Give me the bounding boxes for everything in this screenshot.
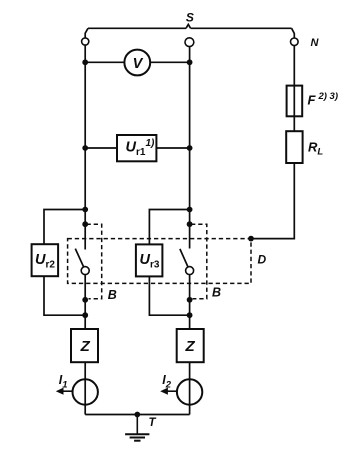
node left-Ur2 bottom (82, 312, 88, 318)
wire N vertical through fuse (293, 46, 295, 132)
svg-text:D: D (258, 253, 267, 267)
node left-Ur2 top (82, 207, 88, 213)
svg-text:Z: Z (80, 338, 91, 355)
node right-Ur1 (187, 145, 193, 151)
wire bottom bus (85, 414, 189, 416)
wire load branch from R_L to node D (251, 163, 294, 239)
switch blade (right contact B) (180, 249, 188, 267)
svg-text:V: V (133, 56, 144, 72)
node right-Ur3 top (187, 207, 193, 213)
svg-text:Z: Z (185, 338, 196, 355)
box Z (left) (71, 329, 98, 362)
switch blade (left contact B) (75, 249, 83, 267)
svg-text:RL: RL (308, 140, 323, 158)
dashed box B (right switch enclosure) (191, 224, 207, 299)
arrow I1 (59, 390, 73, 392)
node left-voltmeter (82, 59, 88, 65)
box Ur1 (117, 135, 156, 161)
wire right main stub from terminal S (189, 46, 191, 248)
wire Ur2 branch top (44, 210, 85, 245)
svg-text:B: B (108, 288, 117, 302)
node right switch top link (187, 221, 193, 227)
node right-voltmeter (187, 59, 193, 65)
wire Ur1 row right (156, 147, 189, 149)
node ground junction (134, 412, 140, 418)
wire right main vertical (lower) (189, 275, 191, 415)
node right switch bottom link (187, 297, 193, 303)
ground T (136, 415, 138, 434)
wire Ur1 row left (85, 147, 117, 149)
wire voltmeter row right (150, 61, 189, 63)
svg-text:N: N (311, 37, 320, 49)
svg-text:F2) 3): F2) 3) (308, 91, 339, 108)
wire left main vertical (lower, switch to bottom corner) (84, 275, 86, 415)
current source I2 (177, 379, 202, 404)
voltmeter V (124, 50, 150, 76)
arrow I2 (163, 390, 177, 392)
wire Ur3 branch bottom (149, 276, 189, 315)
node left switch bottom link (82, 297, 88, 303)
box Z (right) (177, 329, 204, 362)
node left switch top link (82, 221, 88, 227)
box Ur2 (32, 244, 58, 276)
svg-text:T: T (149, 417, 157, 429)
wire left main vertical (upper, to switch break) (84, 45, 86, 249)
wire top bus S left section (88, 27, 186, 29)
svg-text:S: S (186, 10, 194, 24)
wire top bus S right section (191, 27, 292, 29)
wire Ur2 branch bottom (44, 276, 85, 315)
box Ur3 (136, 244, 163, 276)
svg-text:I1: I1 (59, 373, 68, 391)
dashed box B (left switch enclosure) (87, 224, 102, 299)
terminal N (291, 38, 299, 46)
fuse F (287, 86, 303, 117)
switch contact circle (right) (186, 267, 194, 275)
wire top-left corner chamfer (85, 28, 88, 38)
terminal S (middle) (185, 38, 194, 47)
dashed box D (interlock enclosure) (68, 239, 251, 284)
wire top-right corner chamfer (292, 28, 295, 38)
box R_L (286, 131, 302, 163)
node left-Ur1 (82, 145, 88, 151)
node right-Ur3 bottom (187, 312, 193, 318)
wire Ur3 branch top (149, 210, 189, 245)
terminal (left phase) (82, 38, 89, 45)
svg-text:I2: I2 (162, 373, 171, 391)
switch S contact notch (186, 24, 191, 28)
node D junction (248, 236, 254, 242)
svg-text:B: B (212, 286, 221, 300)
wire voltmeter row left (85, 61, 124, 63)
switch contact circle (left) (81, 267, 89, 275)
current source I1 (73, 379, 98, 404)
